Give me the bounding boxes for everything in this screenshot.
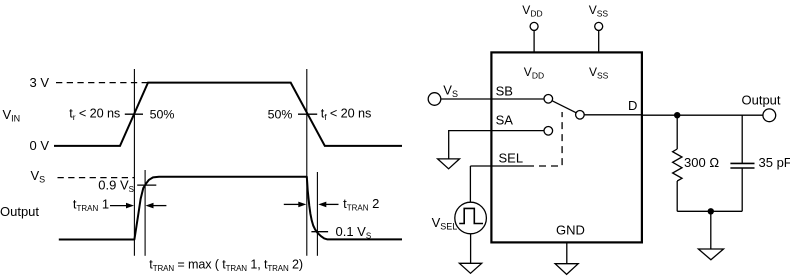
arrow t_TRAN2 pointing left bbox=[326, 203, 339, 205]
0.9 V_S tick bbox=[137, 184, 156, 186]
svg-text:50%: 50% bbox=[150, 108, 175, 122]
wire capacitor branch top bbox=[741, 115, 743, 163]
svg-text:VDD: VDD bbox=[524, 65, 544, 81]
wire V_DD terminal to box bbox=[533, 30, 535, 52]
terminal V_DD circle bbox=[530, 22, 538, 30]
arrow t_TRAN1 pointing left bbox=[153, 205, 167, 207]
wire bottom node to ground bbox=[710, 211, 712, 249]
svg-text:tTRAN = max ( tTRAN 1, tTRAN 2: tTRAN = max ( tTRAN 1, tTRAN 2) bbox=[149, 258, 303, 274]
output waveform low left segment + rise + V_S flat + fall + low right bbox=[59, 177, 402, 240]
terminal V_S circle bbox=[428, 93, 441, 106]
svg-text:D: D bbox=[628, 98, 637, 113]
wire V_S to SB pin bbox=[441, 98, 544, 100]
svg-text:VDD: VDD bbox=[522, 3, 542, 18]
wire SA to ground bbox=[449, 131, 544, 159]
resistor R 300 ohm zigzag bbox=[673, 149, 682, 181]
wire GND pin to ground bbox=[566, 243, 568, 264]
svg-text:tTRAN 1: tTRAN 1 bbox=[73, 197, 109, 214]
svg-text:3 V: 3 V bbox=[30, 75, 50, 90]
ground symbol (V_SEL) bbox=[459, 263, 481, 273]
svg-text:VSS: VSS bbox=[589, 65, 609, 81]
wire V_SEL source to SEL bbox=[469, 166, 471, 202]
wire SEL solid bbox=[470, 165, 527, 167]
wire V_SS terminal to box bbox=[598, 30, 600, 52]
rising-edge timing marker line bbox=[133, 69, 135, 256]
switch contact SA circle bbox=[544, 127, 553, 136]
50% tick on falling edge bbox=[298, 113, 317, 115]
svg-text:0 V: 0 V bbox=[30, 138, 50, 153]
0.1 V_S tick bbox=[311, 231, 328, 233]
wire junction to resistor bbox=[676, 115, 678, 149]
ground symbol (GND) bbox=[555, 264, 578, 275]
wire D to output node bbox=[584, 114, 763, 116]
marker line at end of t_TRAN2 bbox=[316, 172, 318, 256]
V_S level dashed line bbox=[58, 177, 135, 179]
ground symbol (SA) bbox=[438, 159, 460, 169]
ground symbol (load) bbox=[698, 249, 723, 260]
svg-text:SA: SA bbox=[496, 113, 514, 128]
source V_SEL circle bbox=[455, 202, 487, 234]
svg-text:0.1 VS: 0.1 VS bbox=[336, 224, 372, 241]
terminal V_SS circle bbox=[595, 22, 603, 30]
capacitor C 35 pF plates bbox=[730, 163, 754, 168]
svg-text:tTRAN 2: tTRAN 2 bbox=[343, 196, 379, 213]
switch bar bbox=[552, 101, 576, 113]
node bottom junction dot bbox=[708, 208, 714, 214]
marker line at end of t_TRAN1 bbox=[144, 170, 146, 256]
svg-text:SEL: SEL bbox=[499, 151, 524, 166]
wire V_SEL to ground bbox=[470, 234, 472, 263]
svg-text:VIN: VIN bbox=[3, 107, 21, 124]
terminal Output circle bbox=[763, 109, 776, 122]
svg-text:Output: Output bbox=[742, 93, 781, 108]
wire bottom node bbox=[677, 210, 742, 212]
3 V level dashed line bbox=[56, 82, 148, 84]
wire capacitor to bottom node bbox=[741, 168, 743, 211]
svg-text:VSS: VSS bbox=[589, 3, 609, 18]
svg-text:tf < 20 ns: tf < 20 ns bbox=[321, 107, 371, 123]
arrow t_TRAN2 pointing right bbox=[284, 203, 299, 205]
svg-text:35 pF: 35 pF bbox=[759, 155, 790, 170]
pulse symbol inside V_SEL bbox=[459, 208, 483, 223]
svg-text:tr < 20 ns: tr < 20 ns bbox=[69, 107, 120, 123]
arrow t_TRAN1 pointing right bbox=[110, 205, 127, 207]
50% tick on rising edge bbox=[125, 113, 143, 115]
svg-text:SB: SB bbox=[496, 83, 513, 98]
svg-text:VS: VS bbox=[31, 168, 46, 185]
switch pole circle bbox=[576, 111, 585, 120]
IC body U1 bbox=[491, 52, 642, 242]
svg-text:300 Ω: 300 Ω bbox=[684, 155, 719, 170]
svg-text:50%: 50% bbox=[268, 108, 293, 122]
V_IN trapezoid waveform bbox=[54, 83, 402, 146]
falling-edge timing marker line bbox=[306, 69, 308, 256]
dashed control line SEL to switch bbox=[527, 112, 562, 166]
svg-text:Output: Output bbox=[0, 204, 39, 219]
svg-text:GND: GND bbox=[556, 223, 585, 238]
svg-text:0.9 VS: 0.9 VS bbox=[98, 178, 134, 195]
switch contact SB circle bbox=[544, 95, 553, 104]
svg-text:VSEL: VSEL bbox=[432, 215, 458, 232]
svg-text:VS: VS bbox=[443, 83, 458, 100]
node output junction dot bbox=[674, 112, 680, 118]
wire resistor to bottom node bbox=[676, 181, 678, 211]
